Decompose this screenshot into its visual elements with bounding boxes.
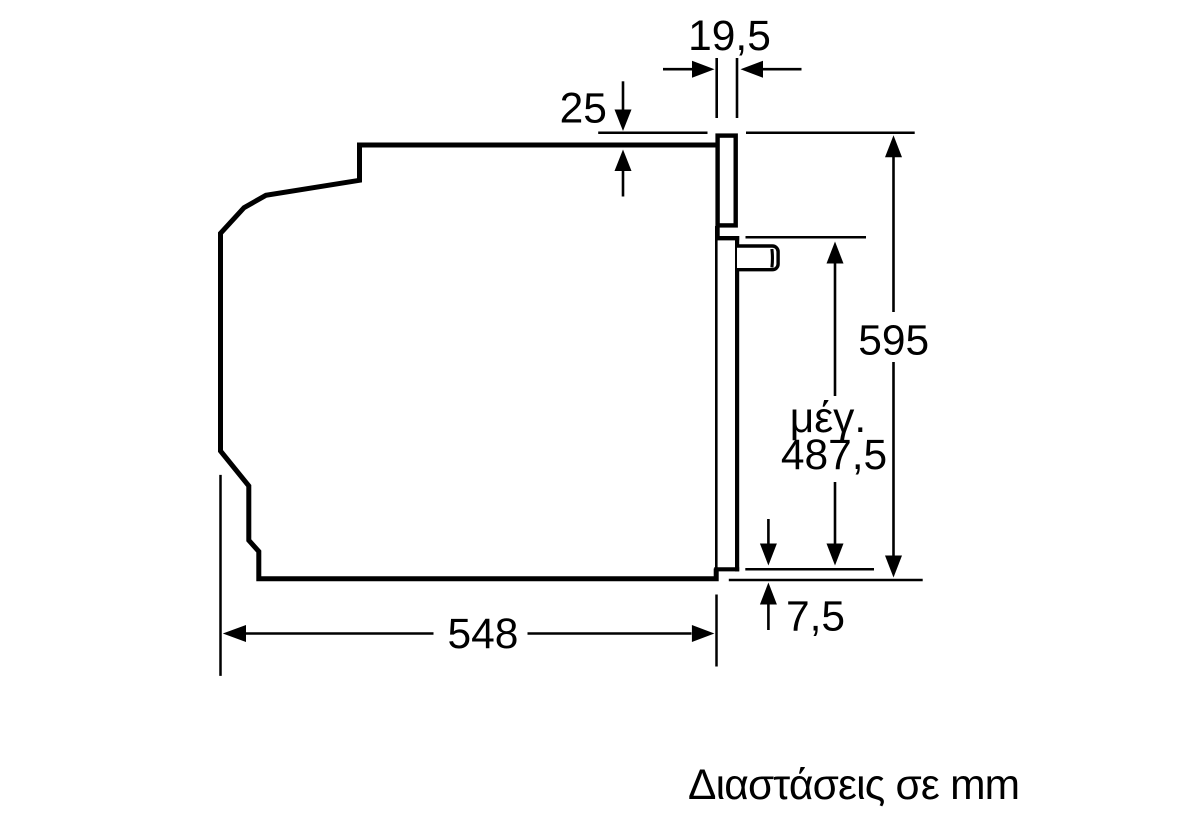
dim 19,5 right arrow: [762, 68, 802, 71]
fascia (control panel cross-section): [718, 136, 736, 226]
dim 19,5 left arrow: [663, 68, 694, 71]
dim 548 left extension line: [219, 475, 222, 676]
dim 25 down arrow: [622, 81, 625, 112]
top reference line left segment: [598, 132, 707, 135]
door back thin line: [715, 226, 718, 569]
dim 595 line lower part with down arrow: [892, 362, 895, 557]
svg-text:25: 25: [560, 86, 607, 133]
dim 548 right extension line: [715, 595, 718, 667]
svg-text:548: 548: [448, 611, 519, 658]
bottom reference line upper (door bottom): [745, 568, 874, 571]
dim 19,5 extension line left: [715, 58, 718, 118]
dim 487,5 top extension line: [746, 236, 867, 239]
bottom reference line lower (carcass bottom): [729, 579, 923, 582]
oven carcass outline: [221, 145, 718, 579]
dim 25 up arrow: [622, 170, 625, 197]
svg-text:487,5: 487,5: [781, 432, 887, 479]
door front edge: [735, 236, 739, 571]
dim 7,5 up arrow: [767, 604, 770, 630]
handle cap highlight arc: [770, 249, 774, 267]
svg-text:Διαστάσεις σε mm: Διαστάσεις σε mm: [688, 762, 1019, 809]
svg-text:7,5: 7,5: [786, 594, 845, 641]
dim 7,5 down arrow: [767, 519, 770, 545]
fascia-door joint segment: [715, 226, 719, 239]
door top edge: [715, 236, 739, 240]
door handle: [737, 246, 778, 270]
dim 487,5 line upper part with up arrow: [834, 262, 837, 396]
door bottom edge: [714, 567, 739, 571]
dim 548 left arrow: [223, 625, 246, 642]
svg-text:595: 595: [858, 318, 929, 365]
top reference line right segment: [746, 132, 915, 135]
dim 487,5 line lower part with down arrow: [834, 482, 837, 545]
dim 19,5 extension line right: [736, 58, 739, 118]
dim 595 line upper part with up arrow: [892, 156, 895, 312]
svg-text:19,5: 19,5: [688, 13, 771, 60]
dim 548 right arrow: [528, 632, 692, 635]
